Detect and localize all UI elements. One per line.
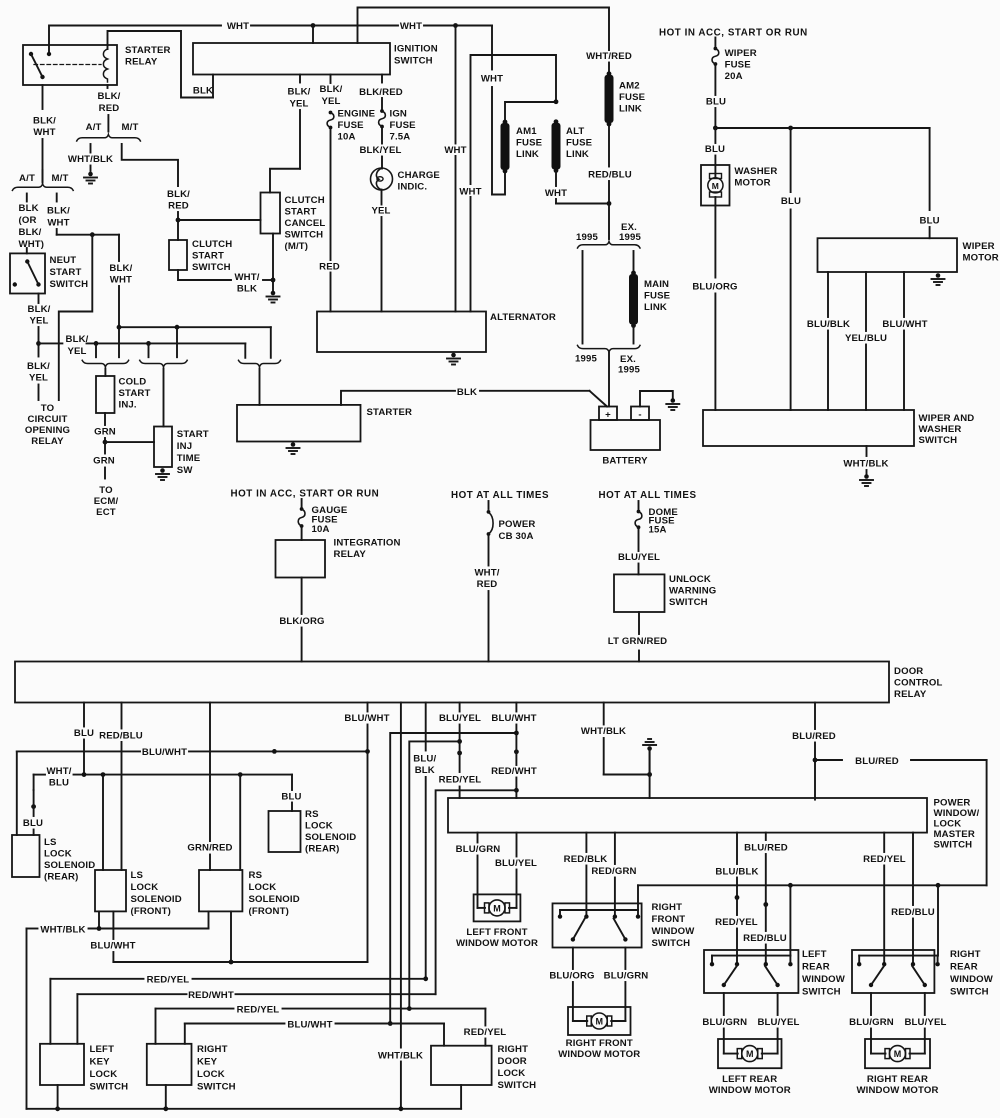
wire BLU/BLK relay pin	[425, 703, 427, 751]
svg-text:LOCK: LOCK	[249, 882, 277, 893]
wire BLU/WHT second relay pin	[515, 703, 517, 712]
svg-text:BLK/: BLK/	[320, 84, 343, 95]
wire BLU to LS rear solenoid	[33, 775, 35, 790]
svg-text:RED/BLK: RED/BLK	[564, 854, 608, 865]
alternator	[317, 312, 486, 353]
wire BLU/YEL branch from pin	[409, 741, 459, 1008]
svg-text:BLU/WHT: BLU/WHT	[142, 747, 187, 758]
svg-text:BLU/: BLU/	[413, 754, 436, 765]
svg-text:20A: 20A	[725, 71, 743, 82]
svg-text:BLK/: BLK/	[167, 189, 190, 200]
svg-text:KEY: KEY	[90, 1057, 111, 1068]
svg-text:WHT: WHT	[47, 217, 69, 228]
wire BLU/GRN to RR motor	[870, 993, 872, 1015]
svg-text:LOCK: LOCK	[131, 882, 159, 893]
svg-text:SWITCH: SWITCH	[394, 56, 433, 67]
svg-text:RED/YEL: RED/YEL	[147, 975, 190, 986]
svg-text:WHT: WHT	[444, 145, 466, 156]
wire to clutch start cancel switch	[178, 219, 261, 221]
svg-text:SOLENOID: SOLENOID	[131, 894, 182, 905]
svg-text:SWITCH: SWITCH	[934, 840, 973, 851]
wire WHT/BLK relay pin to bottom rail	[400, 703, 402, 1048]
svg-text:RED/BLU: RED/BLU	[588, 170, 632, 181]
wire BLK/YEL from neutral switch	[38, 294, 40, 304]
svg-text:+: +	[605, 410, 611, 421]
svg-text:LS: LS	[131, 870, 144, 881]
wire BLU/GRN to RF motor	[624, 948, 626, 970]
svg-text:REAR: REAR	[950, 962, 978, 973]
fuse link ALT	[554, 119, 559, 124]
svg-text:BLK/: BLK/	[109, 263, 132, 274]
svg-text:WINDOW MOTOR: WINDOW MOTOR	[709, 1085, 791, 1096]
svg-text:WHT/: WHT/	[46, 766, 71, 777]
svg-text:BLK/: BLK/	[33, 116, 56, 127]
svg-text:BLU/WHT: BLU/WHT	[287, 1019, 332, 1030]
svg-text:RED/WHT: RED/WHT	[188, 990, 234, 1001]
svg-text:WINDOW: WINDOW	[950, 974, 994, 985]
wire BLK/YEL to engine fuse	[330, 75, 332, 84]
wire 1995 branch	[582, 251, 584, 344]
svg-text:SOLENOID: SOLENOID	[44, 860, 95, 871]
wire RED/YEL right key lock run	[155, 1009, 157, 1044]
svg-text:BLU/RED: BLU/RED	[744, 843, 788, 854]
wire second top feed	[358, 8, 610, 51]
svg-text:BLU/YEL: BLU/YEL	[904, 1017, 946, 1028]
wire EX.1995 branch to main fuse link	[633, 251, 635, 273]
wire BLU/YEL relay pin	[459, 703, 461, 712]
svg-text:M: M	[493, 903, 501, 913]
svg-text:M: M	[746, 1049, 754, 1059]
svg-text:FUSE: FUSE	[619, 92, 646, 103]
svg-text:WHT/BLK: WHT/BLK	[68, 154, 113, 165]
svg-text:KEY: KEY	[197, 1057, 218, 1068]
svg-text:YEL: YEL	[29, 316, 48, 327]
fuse WIPER 20A	[714, 38, 716, 47]
svg-text:BLU/YEL: BLU/YEL	[618, 552, 660, 563]
clutch start cancel switch	[261, 193, 281, 234]
ignition switch	[193, 43, 390, 75]
wire WHT vertical to alternator 1	[455, 26, 457, 144]
svg-text:LINK: LINK	[644, 302, 667, 313]
svg-text:RED/GRN: RED/GRN	[591, 866, 636, 877]
svg-text:BLK/: BLK/	[19, 227, 42, 238]
svg-text:INDIC.: INDIC.	[398, 182, 428, 193]
svg-text:RED: RED	[99, 103, 120, 114]
svg-text:YEL: YEL	[29, 373, 48, 384]
power window lock master switch	[448, 798, 927, 833]
svg-text:NEUT: NEUT	[50, 255, 77, 266]
wire BLU to washer motor	[714, 128, 716, 143]
cold start injector	[104, 369, 106, 377]
wire BLK ignition to starter relay coil	[212, 75, 214, 98]
svg-text:YEL: YEL	[67, 346, 86, 357]
right key lock switch	[147, 1044, 192, 1085]
svg-text:BLU/GRN: BLU/GRN	[604, 971, 649, 982]
svg-text:LEFT FRONT: LEFT FRONT	[466, 927, 527, 938]
svg-text:BLK/ORG: BLK/ORG	[279, 616, 324, 627]
wire cancel switch to ground	[272, 234, 274, 292]
svg-text:TO: TO	[41, 403, 55, 414]
svg-text:BLK: BLK	[415, 765, 435, 776]
svg-text:BLU: BLU	[23, 818, 43, 829]
wire BLU/GRN to LR motor	[723, 993, 725, 1015]
svg-text:ECM/: ECM/	[94, 496, 119, 507]
svg-text:RED/YEL: RED/YEL	[464, 1027, 507, 1038]
wire YEL/BLU wiper motor	[865, 272, 867, 331]
svg-text:RS: RS	[249, 870, 263, 881]
svg-text:WINDOW: WINDOW	[802, 974, 846, 985]
switch blades	[571, 937, 575, 941]
svg-text:M/T: M/T	[52, 173, 69, 184]
svg-text:WHT: WHT	[110, 275, 132, 286]
wire AM1/ALT fuse feed	[505, 102, 556, 122]
node BLU junction	[713, 126, 718, 131]
svg-text:BLU: BLU	[706, 97, 726, 108]
svg-text:WHT: WHT	[33, 127, 55, 138]
svg-text:BLK: BLK	[457, 387, 477, 398]
svg-text:EX.: EX.	[620, 354, 636, 365]
svg-text:START: START	[50, 267, 82, 278]
svg-text:BLU/WHT: BLU/WHT	[882, 319, 927, 330]
brace A/T-M/T upper	[77, 134, 141, 141]
svg-text:WIPER: WIPER	[963, 241, 995, 252]
wire BLU to wiper washer switch	[790, 128, 792, 192]
starter relay	[23, 45, 117, 85]
RS lock solenoid rear	[269, 811, 301, 852]
svg-text:WHT): WHT)	[19, 239, 45, 250]
svg-text:(FRONT): (FRONT)	[249, 906, 289, 917]
wire YEL charge indicator to alternator	[381, 190, 383, 205]
svg-text:WHT/BLK: WHT/BLK	[843, 459, 888, 470]
svg-text:BLU/GRN: BLU/GRN	[849, 1017, 894, 1028]
fuse link AM1	[503, 120, 508, 125]
svg-text:BLU/ORG: BLU/ORG	[692, 282, 737, 293]
svg-text:LEFT: LEFT	[90, 1044, 115, 1055]
svg-text:HOT AT ALL TIMES: HOT AT ALL TIMES	[599, 490, 697, 501]
svg-text:CLUTCH: CLUTCH	[285, 195, 325, 206]
svg-text:WINDOW MOTOR: WINDOW MOTOR	[456, 938, 538, 949]
svg-text:RIGHT: RIGHT	[197, 1044, 228, 1055]
brace A/T-M/T lower	[12, 184, 73, 191]
wire RED engine fuse to alternator	[330, 130, 332, 261]
svg-text:BLU/WHT: BLU/WHT	[90, 941, 135, 952]
svg-text:INTEGRATION: INTEGRATION	[334, 538, 401, 549]
LS lock solenoid rear	[12, 835, 40, 877]
svg-text:WHT/BLK: WHT/BLK	[378, 1050, 423, 1061]
svg-text:TIME: TIME	[177, 453, 201, 464]
svg-text:BLU: BLU	[281, 792, 301, 803]
wire BLU/RED to left rear switch	[765, 833, 767, 840]
wire BLU/WHT relay pin	[367, 703, 369, 712]
svg-text:FRONT: FRONT	[652, 914, 686, 925]
svg-text:WHT: WHT	[481, 74, 503, 85]
svg-text:(REAR): (REAR)	[305, 844, 339, 855]
svg-text:BLK/: BLK/	[27, 361, 50, 372]
svg-text:BLU/BLK: BLU/BLK	[807, 319, 850, 330]
ground	[649, 749, 651, 775]
neutral start switch	[10, 253, 45, 293]
wiper motor	[818, 238, 958, 272]
svg-text:BLU: BLU	[705, 144, 725, 155]
svg-text:LOCK: LOCK	[44, 849, 72, 860]
svg-text:MOTOR: MOTOR	[734, 178, 770, 189]
wire BLK/ORG	[301, 578, 303, 615]
svg-text:LEFT REAR: LEFT REAR	[722, 1074, 777, 1085]
wire BLK/YEL to clutch start cancel switch	[299, 75, 301, 83]
svg-text:1995: 1995	[618, 365, 640, 376]
wire RED/YEL cross link	[436, 790, 517, 994]
wire BLU/WHT right key lock run	[184, 1024, 186, 1044]
svg-text:BLK/: BLK/	[47, 206, 70, 217]
svg-text:STARTER: STARTER	[125, 45, 171, 56]
right door lock switch	[431, 1046, 492, 1085]
svg-text:WARNING: WARNING	[669, 586, 716, 597]
svg-text:M: M	[596, 1017, 604, 1027]
svg-text:LINK: LINK	[566, 149, 589, 160]
wire BLU/ORG washer to switch	[714, 206, 716, 278]
svg-text:UNLOCK: UNLOCK	[669, 574, 711, 585]
svg-text:(REAR): (REAR)	[44, 872, 78, 883]
svg-text:WHT/BLK: WHT/BLK	[40, 924, 85, 935]
wire BLU/RED to window switches	[815, 759, 842, 761]
svg-text:AM1: AM1	[516, 126, 537, 137]
svg-text:DOOR: DOOR	[894, 666, 923, 677]
wire RED/BLU	[608, 126, 610, 167]
wire battery negative to ground	[640, 391, 673, 407]
svg-text:LEFT: LEFT	[802, 949, 827, 960]
right rear window switch	[852, 950, 934, 993]
integration relay	[276, 540, 326, 578]
wire BLK/WHT horizontal upper	[119, 326, 271, 328]
svg-text:RIGHT REAR: RIGHT REAR	[867, 1074, 928, 1085]
wire WHT/BLU to LS front solenoid	[102, 775, 104, 870]
svg-text:BLK/YEL: BLK/YEL	[359, 145, 401, 156]
fuse link MAIN	[631, 271, 636, 276]
wire WHT to ignition switch	[312, 26, 314, 44]
wire BLU to wiper motor	[929, 128, 931, 210]
svg-text:SOLENOID: SOLENOID	[305, 832, 356, 843]
svg-text:RELAY: RELAY	[125, 57, 158, 68]
svg-text:LOCK: LOCK	[934, 819, 962, 830]
svg-text:CONTROL: CONTROL	[894, 678, 942, 689]
wire BLU/WHT wiper motor	[903, 272, 905, 317]
wire BLU/BLK to left rear switch	[736, 833, 738, 864]
svg-text:SWITCH: SWITCH	[498, 1080, 537, 1091]
wire A/T branch	[26, 194, 28, 202]
wire GRN/RED relay pin to RS front solenoid	[209, 703, 211, 842]
start injector time switch	[154, 427, 172, 468]
svg-text:LT GRN/RED: LT GRN/RED	[608, 636, 667, 647]
wire M/T branch to BLK/RED	[122, 144, 178, 186]
wire BLU/RED relay pin	[814, 703, 816, 730]
svg-text:MASTER: MASTER	[934, 829, 975, 840]
svg-text:M/T: M/T	[122, 122, 139, 133]
starter relay coil	[103, 49, 107, 82]
svg-text:FUSE: FUSE	[566, 138, 593, 149]
svg-text:GRN: GRN	[93, 456, 115, 467]
svg-text:FUSE: FUSE	[338, 120, 365, 131]
wire GRN	[104, 413, 106, 425]
wire BLU to RS rear solenoid	[291, 775, 293, 790]
svg-text:FUSE: FUSE	[516, 138, 543, 149]
svg-text:WHT/RED: WHT/RED	[586, 51, 632, 62]
wire RED/GRN	[614, 833, 616, 864]
svg-text:GRN: GRN	[94, 427, 116, 438]
svg-text:STARTER: STARTER	[367, 407, 413, 418]
RS lock solenoid front	[199, 870, 242, 911]
svg-text:RED/WHT: RED/WHT	[491, 766, 537, 777]
svg-text:WIPER: WIPER	[725, 48, 757, 59]
wire BLU/WHT pin continues to front solenoids	[367, 751, 369, 962]
wire BLK/WHT right branch down	[118, 235, 120, 261]
svg-text:SWITCH: SWITCH	[285, 230, 324, 241]
svg-text:M: M	[894, 1049, 902, 1059]
svg-text:15A: 15A	[649, 525, 667, 536]
svg-text:MOTOR: MOTOR	[963, 253, 999, 264]
svg-text:BLK/: BLK/	[98, 91, 121, 102]
svg-text:ECT: ECT	[96, 507, 116, 518]
svg-text:START: START	[177, 429, 209, 440]
svg-text:RIGHT: RIGHT	[950, 949, 981, 960]
svg-text:WHT/: WHT/	[474, 568, 499, 579]
svg-text:DOOR: DOOR	[498, 1056, 527, 1067]
ground	[451, 353, 456, 358]
svg-text:OPENING: OPENING	[25, 425, 70, 436]
svg-text:A/T: A/T	[19, 173, 35, 184]
brace cold start injector	[82, 360, 128, 367]
clutch start switch	[169, 240, 187, 270]
svg-text:BLU/GRN: BLU/GRN	[456, 844, 501, 855]
svg-text:SW: SW	[177, 465, 194, 476]
circuit breaker POWER CB 30A	[488, 501, 490, 509]
svg-text:INJ: INJ	[177, 441, 192, 452]
svg-text:GRN/RED: GRN/RED	[187, 843, 232, 854]
wire RED/BLU to right rear switch	[912, 833, 914, 905]
svg-text:RED/YEL: RED/YEL	[439, 775, 482, 786]
door control relay	[15, 662, 889, 703]
wire RED/YEL key lock run	[49, 979, 51, 1044]
wire BLU	[714, 66, 716, 95]
right front window motor	[568, 1007, 631, 1035]
svg-text:BLU/WHT: BLU/WHT	[344, 713, 389, 724]
svg-text:FUSE: FUSE	[644, 291, 671, 302]
svg-text:RELAY: RELAY	[894, 689, 927, 700]
wire to WHT/BLK ground	[90, 144, 92, 153]
wire WHT/BLU horizontal	[34, 774, 45, 776]
svg-text:SWITCH: SWITCH	[197, 1082, 236, 1093]
svg-text:WHT: WHT	[545, 188, 567, 199]
svg-text:WINDOW: WINDOW	[652, 926, 696, 937]
svg-text:SWITCH: SWITCH	[669, 597, 708, 608]
svg-text:START: START	[285, 207, 317, 218]
svg-text:YEL: YEL	[371, 206, 390, 217]
svg-text:10A: 10A	[338, 132, 356, 143]
svg-text:HOT IN ACC, START OR RUN: HOT IN ACC, START OR RUN	[659, 27, 808, 38]
wire BLU/YEL to LR motor	[777, 993, 779, 1015]
svg-text:SWITCH: SWITCH	[652, 938, 691, 949]
svg-text:COLD: COLD	[119, 377, 147, 388]
svg-text:BLU: BLU	[920, 215, 940, 226]
wire WHT/RED	[488, 536, 490, 566]
svg-text:RS: RS	[305, 809, 319, 820]
wire BLU/GRN to LF motor	[477, 833, 479, 843]
svg-text:(OR: (OR	[19, 215, 37, 226]
wire WHT/BLK to ground	[866, 446, 868, 456]
svg-text:CLUTCH: CLUTCH	[192, 239, 232, 250]
svg-text:ALT: ALT	[566, 126, 584, 137]
svg-text:1995: 1995	[619, 232, 641, 243]
svg-text:BLK: BLK	[19, 203, 39, 214]
left front window motor	[474, 894, 521, 921]
brace starter feed	[239, 360, 281, 367]
charge indicator lamp	[371, 168, 393, 190]
svg-text:RED: RED	[319, 262, 340, 273]
svg-text:POWER: POWER	[934, 798, 971, 809]
svg-text:CANCEL: CANCEL	[285, 218, 326, 229]
svg-text:CIRCUIT: CIRCUIT	[28, 414, 68, 425]
wire BLU/YEL	[638, 530, 640, 552]
washer motor	[701, 165, 730, 206]
fuse link AM2	[607, 71, 612, 76]
svg-text:RELAY: RELAY	[334, 549, 367, 560]
wire M/T branch BLK/WHT	[56, 194, 58, 202]
svg-text:WHT: WHT	[459, 186, 481, 197]
wire BLU distribution	[715, 127, 929, 129]
node WHT junction	[311, 23, 316, 28]
fuse IGN 7.5A	[380, 109, 384, 113]
svg-text:LS: LS	[44, 837, 57, 848]
wire RED/YEL to right rear switch	[883, 833, 885, 852]
right rear window motor	[865, 1039, 930, 1068]
svg-text:BLU: BLU	[74, 728, 94, 739]
wire RED/WHT key lock run	[76, 994, 78, 1044]
left key lock switch	[40, 1044, 84, 1085]
left rear window switch	[704, 950, 798, 993]
wire BLK/WHT junction run	[57, 234, 119, 236]
svg-text:MAIN: MAIN	[644, 279, 669, 290]
svg-text:RED/BLU: RED/BLU	[743, 933, 787, 944]
svg-text:SWITCH: SWITCH	[919, 435, 958, 446]
svg-text:RED/YEL: RED/YEL	[863, 854, 906, 865]
node BLK/RED junction	[176, 218, 181, 223]
wire BLU/WHT solenoid to relay	[112, 911, 114, 939]
svg-text:CB 30A: CB 30A	[499, 531, 534, 542]
fuse DOME 15A	[638, 501, 640, 509]
wire WHT/BLK down left side	[26, 929, 28, 1109]
wire WHT/BLK solenoid return	[98, 911, 100, 928]
wire BLK/RED starter relay coil	[107, 85, 109, 88]
svg-text:LOCK: LOCK	[305, 821, 333, 832]
svg-text:BLU/RED: BLU/RED	[855, 756, 899, 767]
svg-text:BLU: BLU	[781, 196, 801, 207]
svg-text:BLU/YEL: BLU/YEL	[757, 1017, 799, 1028]
svg-text:RED/BLU: RED/BLU	[99, 731, 143, 742]
wire BLU/RED feed rail	[638, 884, 987, 886]
left rear window motor	[718, 1039, 782, 1068]
svg-text:RED: RED	[168, 201, 189, 212]
wire WHT vertical to alternator 2	[471, 55, 557, 312]
svg-text:A/T: A/T	[86, 122, 102, 133]
wire RED/BLK	[585, 833, 587, 852]
svg-text:RED/BLU: RED/BLU	[891, 907, 935, 918]
wire BLU/ORG to RF motor	[572, 948, 574, 970]
wire LT GRN/RED	[638, 612, 640, 634]
svg-text:RIGHT FRONT: RIGHT FRONT	[566, 1038, 633, 1049]
svg-text:BLK/: BLK/	[288, 87, 311, 98]
svg-text:WHT: WHT	[400, 21, 422, 32]
svg-text:CHARGE: CHARGE	[398, 170, 441, 181]
wire BLK starter to battery	[341, 391, 455, 405]
